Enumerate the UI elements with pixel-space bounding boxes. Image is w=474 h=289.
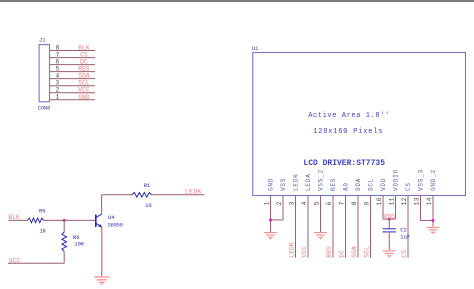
svg-text:CS: CS [405, 182, 412, 191]
svg-text:RES: RES [326, 246, 333, 258]
svg-text:8: 8 [56, 44, 60, 51]
wire BLK to R5 [8, 219, 27, 221]
wire U1 pin 11 (VDDIO) vertical [395, 196, 397, 220]
svg-text:LEDA: LEDA [305, 173, 312, 191]
svg-text:VSS_2: VSS_2 [318, 169, 325, 191]
svg-text:CON8: CON8 [38, 106, 50, 112]
svg-text:VDDIO: VDDIO [393, 169, 400, 191]
ground (U1 pins 13,14) [427, 227, 440, 234]
svg-text:SDA: SDA [351, 246, 358, 258]
wire J1 pin 7 [50, 57, 95, 59]
ground (U1 pin 5) [314, 233, 327, 240]
svg-text:2: 2 [276, 201, 283, 205]
wire U1 pin 13 jog [421, 220, 434, 222]
wire U1 pin 6 (RES net) [332, 196, 334, 258]
svg-text:6: 6 [326, 201, 333, 205]
wire VCC rail [8, 262, 64, 264]
svg-text:7: 7 [56, 51, 60, 58]
svg-text:DC: DC [339, 250, 346, 258]
wire U1 pin 10 jog [383, 218, 389, 220]
wire junction to R6 [63, 220, 65, 232]
svg-text:A0: A0 [343, 182, 350, 191]
svg-text:4: 4 [301, 201, 308, 205]
junction base node [63, 219, 66, 222]
window top bar [0, 0, 474, 2]
junction pins 13-14 [432, 219, 435, 222]
wire U1 pin 9 (SCL net) [370, 196, 372, 258]
wire U1 pin 4 (VCC net) [307, 196, 309, 258]
wire U1 pin 5 (VSS_2) [320, 196, 322, 232]
svg-text:DC: DC [80, 59, 88, 66]
wire J1 pin 3 [50, 85, 95, 87]
svg-text:VDD: VDD [380, 178, 387, 191]
svg-text:5: 5 [56, 65, 60, 72]
svg-text:SDA: SDA [78, 73, 90, 80]
wire VDD to C2 [388, 219, 390, 229]
wire U1 pin 11 jog [389, 218, 395, 220]
svg-text:128x160 Pixels: 128x160 Pixels [313, 128, 383, 136]
ground (U1 pins 1,2) [264, 233, 277, 240]
svg-text:VSS: VSS [280, 178, 287, 191]
wire J1 pin 2 [50, 92, 95, 94]
svg-text:R1: R1 [144, 182, 151, 189]
svg-text:1K: 1K [40, 227, 47, 234]
svg-text:SCL: SCL [368, 178, 375, 191]
svg-text:BLK: BLK [78, 45, 90, 52]
svg-text:9: 9 [363, 201, 370, 205]
svg-text:1: 1 [56, 94, 60, 101]
svg-text:J1: J1 [39, 37, 46, 44]
svg-text:14: 14 [426, 197, 433, 205]
wire U1 pin 14 (GND_2) [432, 196, 434, 227]
svg-text:GND_2: GND_2 [430, 169, 437, 191]
wire U1 pin 2 jog [271, 219, 284, 221]
svg-text:3: 3 [288, 201, 295, 205]
svg-text:1: 1 [263, 201, 270, 205]
svg-text:SCL: SCL [78, 80, 90, 87]
svg-text:VCC: VCC [9, 257, 21, 264]
svg-text:7: 7 [338, 201, 345, 205]
wire J1 pin 4 [50, 78, 95, 80]
wire collector up [101, 195, 103, 214]
svg-text:U1: U1 [252, 45, 259, 52]
svg-text:GND: GND [268, 178, 275, 191]
wire U1 pin 7 (DC net) [345, 196, 347, 258]
connector J1 body [39, 45, 49, 102]
resistor R5 [27, 218, 44, 223]
svg-text:3: 3 [56, 80, 60, 87]
wire R6 to VCC rail [63, 251, 65, 263]
svg-text:13: 13 [413, 197, 420, 205]
svg-text:CS: CS [401, 250, 408, 258]
svg-text:LEDK: LEDK [289, 242, 296, 257]
svg-text:12: 12 [401, 197, 408, 205]
wire J1 pin 8 [50, 50, 95, 52]
svg-text:VCC: VCC [78, 87, 90, 94]
svg-text:CS: CS [80, 52, 88, 59]
wire R1 to LEDK [152, 194, 205, 196]
wire U1 pin 13 (VSS_3) vertical [420, 196, 422, 221]
svg-text:GND: GND [78, 94, 90, 101]
capacitor C2 [383, 229, 396, 232]
resistor R1 [132, 193, 152, 198]
wire R5 to base [44, 219, 96, 221]
svg-text:4: 4 [56, 72, 60, 79]
svg-text:10: 10 [145, 202, 152, 209]
svg-text:10K: 10K [74, 241, 85, 248]
ground (C2) [383, 251, 396, 258]
wire J1 pin 5 [50, 71, 95, 73]
wire U1 pin 2 (VSS) vertical [282, 196, 284, 220]
wire U1 pin 1 (GND) [270, 196, 272, 232]
svg-text:SDA: SDA [355, 178, 362, 191]
svg-text:1uF: 1uF [400, 234, 410, 241]
svg-text:5: 5 [313, 201, 320, 205]
svg-text:8: 8 [351, 201, 358, 205]
wire U1 pin 3 (LEDK net) [295, 196, 297, 258]
svg-text:SCL: SCL [364, 246, 371, 258]
wire J1 pin 1 [50, 99, 95, 101]
svg-text:11: 11 [388, 197, 395, 205]
svg-text:R5: R5 [39, 208, 46, 215]
svg-text:VSS_3: VSS_3 [418, 169, 425, 191]
resistor R6 [62, 232, 67, 251]
svg-text:10: 10 [376, 197, 383, 205]
LCD module U1 body [253, 53, 466, 196]
wire U1 pin 10 (VDD) vertical [382, 196, 384, 220]
svg-text:LEDK: LEDK [185, 189, 202, 196]
svg-text:VCC: VCC [301, 246, 308, 258]
svg-text:LCD DRIVER:ST7735: LCD DRIVER:ST7735 [303, 159, 385, 168]
svg-text:U4: U4 [108, 214, 115, 221]
svg-text:LEDK: LEDK [293, 173, 300, 191]
junction pins 1-2 [269, 218, 272, 221]
wire U1 pin 8 (SDA net) [357, 196, 359, 258]
wire collector to R1 [102, 194, 132, 196]
svg-text:C2: C2 [400, 226, 407, 233]
ground (emitter) [94, 277, 109, 285]
svg-text:RES: RES [78, 66, 90, 73]
svg-text:6: 6 [56, 58, 60, 65]
junction VDD node [388, 218, 391, 221]
transistor Q U4 (S8050) [96, 214, 102, 228]
svg-text:Active Area 1.8'': Active Area 1.8'' [308, 112, 390, 120]
svg-text:S8050: S8050 [108, 222, 123, 228]
svg-text:2: 2 [56, 87, 60, 94]
svg-text:RES: RES [330, 178, 337, 191]
wire J1 pin 6 [50, 64, 95, 66]
wire U1 pin 12 (CS net) [407, 196, 409, 258]
wire C2 to ground [388, 232, 390, 250]
wire emitter down [101, 227, 103, 276]
